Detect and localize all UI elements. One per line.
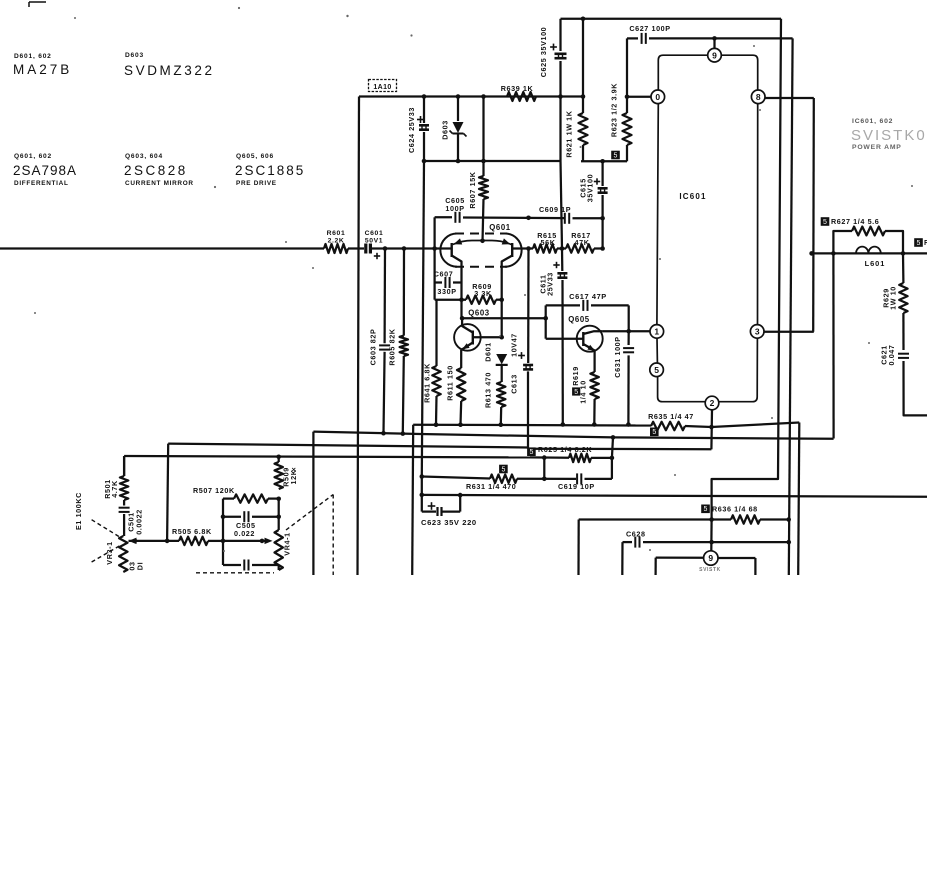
svg-text:5: 5 (704, 506, 708, 513)
svg-text:10V47: 10V47 (510, 333, 519, 357)
resistor R636 1/4 68 (701, 505, 710, 514)
svg-text:R507 120K: R507 120K (193, 486, 235, 495)
svg-text:8: 8 (756, 92, 761, 102)
svg-text:C613: C613 (510, 374, 519, 394)
svg-text:D603: D603 (441, 120, 450, 140)
svg-text:Q601, 602: Q601, 602 (14, 153, 52, 160)
IC601 pin 10 (651, 90, 665, 104)
dashed linkage VR4 (286, 495, 333, 531)
svg-text:R621 1W 1K: R621 1W 1K (565, 110, 574, 157)
wire ground rail left drop (412, 425, 413, 575)
wire pin8-pin3 output vertical (812, 98, 815, 332)
wire IC601 outline (657, 55, 758, 402)
svg-text:R613 470: R613 470 (484, 372, 493, 408)
svg-text:2SC1885: 2SC1885 (235, 163, 305, 178)
svg-text:POWER AMP: POWER AMP (852, 144, 902, 151)
svg-text:2SC828: 2SC828 (124, 163, 188, 178)
svg-text:1: 1 (654, 327, 659, 337)
IC601 pin 8 (751, 90, 765, 104)
svg-text:100P: 100P (445, 204, 464, 213)
flameproof mark right edge R6 (914, 238, 923, 247)
svg-text:5: 5 (823, 219, 827, 226)
svg-text:R636 1/4 68: R636 1/4 68 (712, 505, 758, 514)
svg-text:IC601, 602: IC601, 602 (852, 118, 893, 125)
svg-text:CURRENT MIRROR: CURRENT MIRROR (125, 180, 194, 187)
wire rail B pin2 line (168, 444, 528, 448)
svg-text:C631 100P: C631 100P (613, 336, 622, 377)
svg-text:0: 0 (655, 92, 660, 102)
resistor R601 2.2K (324, 244, 348, 253)
svg-text:SVISTK0C: SVISTK0C (851, 127, 927, 144)
svg-text:DI: DI (136, 562, 145, 570)
svg-text:5: 5 (574, 389, 578, 396)
wire R625 right to rail A (612, 437, 613, 458)
svg-text:C601: C601 (365, 230, 384, 237)
svg-text:0.022: 0.022 (234, 529, 255, 538)
wire bias vertical x=423 to R631 row (422, 161, 424, 477)
svg-text:D603: D603 (125, 52, 144, 59)
wire main input line (0, 247, 324, 249)
svg-text:0.047: 0.047 (887, 345, 896, 366)
svg-text:2SA798A: 2SA798A (13, 163, 77, 178)
svg-text:35V100: 35V100 (586, 174, 595, 202)
dashed bottom edge (196, 572, 274, 574)
IC601 pin 9 (713, 38, 715, 48)
svg-text:Q603: Q603 (468, 308, 490, 317)
svg-text:330P: 330P (437, 287, 456, 296)
svg-text:IC601: IC601 (679, 192, 706, 201)
svg-text:5: 5 (917, 240, 921, 247)
svg-text:C603 82P: C603 82P (369, 329, 378, 366)
svg-text:VR4-1: VR4-1 (283, 532, 292, 555)
wire feedback rail A output to left (313, 432, 833, 439)
reference box 1A10 (369, 80, 397, 92)
svg-text:0.0022: 0.0022 (135, 509, 144, 535)
svg-text:9: 9 (708, 553, 713, 563)
IC601 pin 3 (750, 325, 764, 339)
svg-text:R635 1/4 47: R635 1/4 47 (648, 412, 694, 421)
svg-text:C627 100P: C627 100P (629, 24, 670, 33)
svg-text:2: 2 (710, 398, 715, 408)
scan specks (346, 15, 348, 17)
svg-text:R611 150: R611 150 (446, 365, 455, 401)
svg-text:5: 5 (501, 466, 505, 473)
svg-text:Q605, 606: Q605, 606 (236, 153, 274, 160)
svg-text:R505 6.8K: R505 6.8K (172, 527, 212, 536)
svg-text:MA27B: MA27B (13, 62, 72, 77)
wire R625 to R631 link (543, 458, 545, 479)
svg-text:C617 47P: C617 47P (569, 292, 607, 301)
svg-text:×: × (292, 465, 297, 474)
IC602 pin 9 (704, 551, 718, 565)
svg-text:R641 6.8K: R641 6.8K (423, 363, 432, 403)
svg-text:R607 15K: R607 15K (468, 171, 477, 208)
resistor R627 1/4 5.6 with bypass loop (821, 217, 830, 226)
capacitor C623 35V220 (428, 505, 436, 507)
svg-text:SVISTK: SVISTK (699, 567, 721, 573)
svg-text:C624 25V33: C624 25V33 (407, 107, 416, 153)
svg-text:R627 1/4 5.6: R627 1/4 5.6 (831, 217, 879, 226)
wire R621/R623 bottom link (581, 160, 627, 162)
resistor R631 1/4 470 (499, 465, 508, 474)
IC601 pin 1 (650, 325, 664, 339)
capacitor C505 lower section (223, 564, 241, 566)
wire rail C R625 line (124, 456, 530, 457)
svg-text:4.7K: 4.7K (110, 480, 119, 498)
resistor R625 1/4 8.2K (527, 447, 536, 456)
svg-text:5: 5 (654, 365, 659, 375)
svg-text:R601: R601 (327, 230, 346, 237)
wire NFB vertical to C623 area (421, 477, 423, 512)
svg-text:E1 100KC: E1 100KC (74, 492, 83, 530)
wire output tap down to feedback rail (832, 253, 834, 438)
wire Q605 collector to pin1 (603, 330, 650, 332)
wire zener rail y=161 (424, 160, 561, 162)
IC601 pin 5 (650, 363, 664, 377)
svg-text:PRE DRIVE: PRE DRIVE (236, 180, 277, 187)
svg-text:2.2K: 2.2K (328, 238, 345, 245)
svg-text:25V33: 25V33 (546, 272, 555, 296)
wire ground rail right part (712, 423, 800, 428)
svg-text:R605 82K: R605 82K (388, 328, 397, 365)
svg-text:L601: L601 (865, 259, 886, 268)
wire top supply y=18.8 (561, 18, 782, 20)
svg-text:C625 35V100: C625 35V100 (539, 27, 548, 78)
wire C625 branch down to R615 node (561, 161, 563, 249)
svg-text:C623 35V 220: C623 35V 220 (421, 518, 477, 527)
svg-text:1W 10: 1W 10 (889, 286, 898, 310)
svg-text:R623 1/2 3.9K: R623 1/2 3.9K (610, 83, 619, 137)
wire main line to Q601 (370, 247, 452, 249)
wire long vertical from supply rail to bottom (358, 97, 360, 576)
wire C605 feedback loop (433, 217, 435, 248)
svg-text:50V1: 50V1 (365, 238, 383, 245)
svg-text:Q601: Q601 (489, 223, 511, 232)
svg-text:R625 1/4 8.2K: R625 1/4 8.2K (538, 445, 592, 454)
transistor Q603 2SC828 (454, 324, 481, 351)
wire supply vertical V1 (712, 19, 781, 509)
svg-text:D601, 602: D601, 602 (14, 53, 52, 60)
wire pin9 feed second IC (710, 520, 713, 552)
svg-text:1A10: 1A10 (373, 84, 391, 91)
dashed adjust lines E1 (92, 520, 121, 538)
svg-text:9: 9 (712, 50, 717, 60)
wire top-left corner mark (29, 1, 46, 3)
IC601 pin 2 (705, 396, 719, 410)
svg-text:3: 3 (755, 327, 760, 337)
svg-text:5: 5 (652, 429, 656, 436)
svg-text:C609 1P: C609 1P (539, 205, 571, 214)
svg-text:Q605: Q605 (568, 315, 590, 324)
svg-text:D601: D601 (484, 342, 493, 362)
wire supply vertical V2 (789, 38, 793, 575)
wire long rail y=495 (422, 495, 927, 497)
svg-text:5: 5 (614, 152, 618, 159)
wire output line (812, 252, 927, 254)
svg-text:SVDMZ322: SVDMZ322 (124, 63, 215, 78)
wire supply rail y=96.5 (359, 95, 583, 97)
svg-text:DIFFERENTIAL: DIFFERENTIAL (14, 180, 69, 187)
svg-text:5: 5 (529, 449, 533, 456)
wire ground rail (413, 424, 651, 427)
svg-text:Q603, 604: Q603, 604 (125, 153, 163, 160)
wire Q601 right base to R615 node (512, 247, 533, 249)
